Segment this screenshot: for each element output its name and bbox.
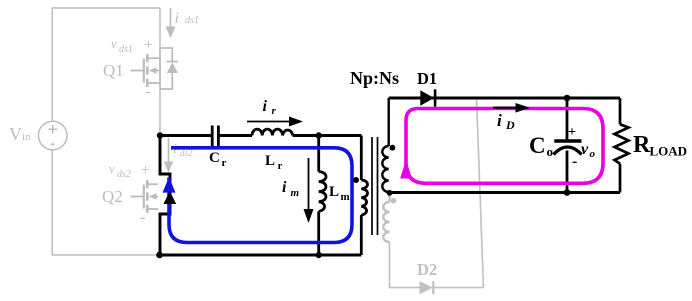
label C_r [209, 150, 227, 169]
svg-text:v: v [111, 36, 117, 51]
svg-text:i: i [497, 111, 502, 130]
svg-text:-: - [572, 153, 577, 170]
winding secondary bottom (gray) [383, 195, 389, 243]
svg-text:Np:Ns: Np:Ns [350, 68, 399, 88]
current arrow i_m [282, 158, 314, 223]
svg-text:m: m [291, 187, 300, 199]
current arrow i_r [247, 98, 303, 127]
svg-text:Q1: Q1 [103, 61, 124, 80]
node junction bottom of L_m [316, 252, 322, 258]
svg-text:r: r [272, 105, 277, 117]
svg-text:D1: D1 [417, 69, 437, 88]
wire Q1 drain lead (gray) [159, 8, 161, 48]
svg-text:V: V [9, 124, 22, 144]
svg-text:i: i [175, 10, 179, 27]
transistor Q2 [131, 180, 159, 213]
svg-text:D: D [505, 118, 515, 132]
transistor Q1 [131, 48, 161, 89]
inductor L_r [252, 129, 293, 135]
svg-text:v: v [109, 161, 115, 176]
svg-text:r: r [278, 160, 283, 172]
node primary phase dot [353, 177, 359, 183]
svg-text:R: R [633, 132, 651, 158]
capacitor C_o [554, 98, 582, 193]
wire output loop bottom rail [390, 191, 621, 194]
svg-text:+: + [141, 162, 150, 179]
wire D2 branch (gray) [390, 98, 484, 288]
svg-text:o: o [547, 144, 554, 159]
svg-text:ds1: ds1 [185, 15, 199, 26]
node half-bridge midpoint [157, 132, 163, 138]
svg-text:m: m [341, 191, 350, 203]
transistor Q1 bulk arrow [149, 67, 157, 73]
current arrow i_D [493, 103, 530, 132]
core transformer [372, 137, 378, 235]
winding secondary top [382, 98, 388, 192]
svg-text:-: - [140, 209, 145, 226]
inductor L_m [319, 136, 326, 256]
svg-text:r: r [222, 157, 227, 169]
svg-text:+: + [568, 125, 576, 140]
wire output loop top rail [389, 97, 620, 100]
svg-text:-: - [145, 83, 150, 100]
capacitor C_r [212, 126, 218, 147]
node secondary top phase dot [390, 145, 396, 151]
node junction top of L_m [316, 132, 322, 138]
label R_LOAD [633, 132, 687, 159]
svg-text:D2: D2 [417, 260, 437, 279]
svg-text:Q2: Q2 [102, 187, 123, 206]
svg-text:o: o [590, 148, 596, 160]
transistor Q2 bulk arrow [149, 193, 157, 199]
current arrow blue loop [163, 177, 176, 193]
wire resonant loop left through Q2 [160, 136, 170, 256]
label v_o [581, 141, 596, 160]
svg-text:L: L [329, 184, 339, 200]
svg-text:C: C [529, 133, 546, 158]
node C_o top [564, 95, 571, 102]
current loop primary (blue) [169, 148, 352, 243]
wire Q1 source to node (gray) [159, 89, 161, 134]
label v_ds1 + [111, 36, 153, 100]
current loop secondary (magenta) [406, 109, 603, 184]
winding transformer primary [361, 136, 367, 256]
svg-text:LOAD: LOAD [650, 144, 688, 159]
label L_m [329, 184, 350, 203]
current arrow black on Q2 branch [163, 191, 176, 204]
label L_r [265, 153, 283, 172]
node center tap [387, 190, 393, 196]
wire resonant loop bottom [160, 254, 361, 257]
diode Q1 body diode [160, 48, 178, 89]
svg-text:C: C [209, 150, 220, 166]
label V_in [9, 124, 31, 144]
current arrow i_ds1 [166, 8, 199, 38]
source V_in [38, 121, 67, 150]
svg-text:ds1: ds1 [119, 44, 133, 55]
node bottom-left junction [156, 252, 163, 259]
label C_o [529, 133, 553, 159]
svg-text:ds2: ds2 [117, 169, 131, 180]
svg-text:+: + [144, 37, 153, 54]
node secondary bottom phase dot (gray) [391, 198, 397, 204]
diode D2 [420, 281, 434, 294]
svg-text:i: i [263, 98, 268, 115]
svg-text:L: L [265, 153, 275, 169]
current arrow i_ds2 [164, 138, 193, 173]
diode D1 [420, 89, 435, 106]
wire resonant loop top [160, 134, 361, 137]
svg-text:i: i [282, 179, 287, 196]
wire input loop left/top/bottom (gray) [52, 8, 160, 255]
resistor R_LOAD [615, 98, 629, 193]
node C_o bottom [564, 189, 571, 196]
current arrow magenta loop [400, 160, 412, 179]
svg-text:v: v [581, 141, 589, 158]
label v_ds2 + [109, 161, 150, 226]
svg-text:in: in [22, 131, 31, 143]
